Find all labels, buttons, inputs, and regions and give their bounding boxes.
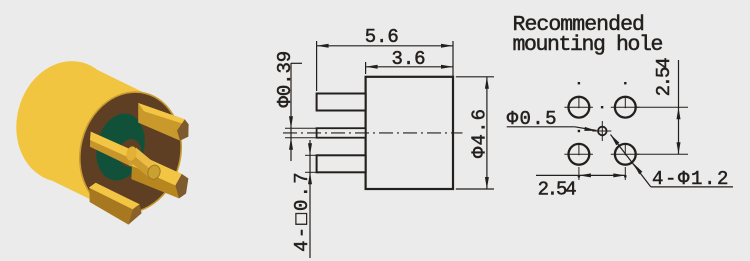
label phi 0.5 with leader xyxy=(507,108,597,131)
svg-text:Φ4.6: Φ4.6 xyxy=(469,108,491,158)
insulator disc (green) xyxy=(89,108,151,185)
svg-text:Φ0.39: Φ0.39 xyxy=(274,51,296,108)
svg-text:5.6: 5.6 xyxy=(365,26,399,48)
dimension 3.6 (body length) xyxy=(366,48,453,74)
square pin upper-right (3D) xyxy=(138,103,188,141)
dimension phi 0.39 (center pin diameter) xyxy=(274,51,317,161)
connector body cylinder (gold) xyxy=(4,50,194,224)
dimension 5.6 (overall length) xyxy=(317,26,453,91)
dimension 2.54 horizontal (hole pitch) xyxy=(536,167,625,200)
label 4-phi1.2 with leader xyxy=(611,135,734,190)
connector front face (dark bronze ring) xyxy=(67,81,194,224)
svg-text:mounting hole: mounting hole xyxy=(513,33,663,57)
mounting hole circle top-left (phi 1.2) xyxy=(564,97,593,118)
mounting hole circle top-right (phi 1.2) xyxy=(611,97,640,118)
insulator center hole (bronze) xyxy=(116,137,144,169)
center contact pin (side view) xyxy=(317,128,366,138)
upper square pin (side view) xyxy=(317,94,366,111)
mounting hole circle bottom-left (phi 1.2) xyxy=(564,144,593,165)
square pin middle-left (3D) xyxy=(90,132,139,169)
dimension phi 4.6 (body diameter) xyxy=(456,77,494,189)
lower square pin (side view) xyxy=(317,155,366,172)
svg-text:2.54: 2.54 xyxy=(653,58,675,97)
dimension 2.54 vertical (hole pitch) xyxy=(637,58,688,154)
svg-text:4-□0.7: 4-□0.7 xyxy=(291,170,313,252)
svg-text:3.6: 3.6 xyxy=(392,48,426,70)
square pin lower-right (3D) xyxy=(131,154,188,198)
center hole circle (phi 0.5) xyxy=(592,121,611,141)
centerline (dash-dot axis) xyxy=(283,132,463,134)
dimension 0.7 with note 4-sq0.7 (square pins) xyxy=(291,140,317,258)
square pin lower-left (3D) xyxy=(89,183,142,225)
mounting hole circle bottom-right (phi 1.2) xyxy=(611,144,640,165)
svg-text:2.54: 2.54 xyxy=(538,178,577,200)
svg-text:4-Φ1.2: 4-Φ1.2 xyxy=(652,168,730,190)
center contact pin (3D gold cylinder) xyxy=(125,145,162,181)
connector body (side view) xyxy=(366,77,453,189)
centerline dots xyxy=(578,82,627,178)
